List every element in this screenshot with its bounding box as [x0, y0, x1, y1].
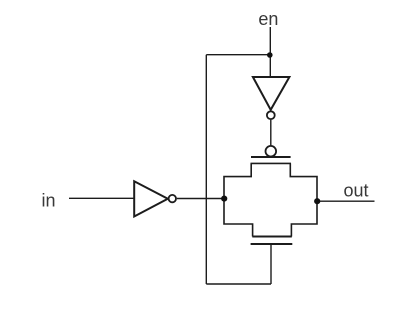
svg-text:out: out [344, 181, 369, 201]
svg-text:in: in [42, 191, 56, 211]
svg-text:en: en [258, 9, 278, 29]
